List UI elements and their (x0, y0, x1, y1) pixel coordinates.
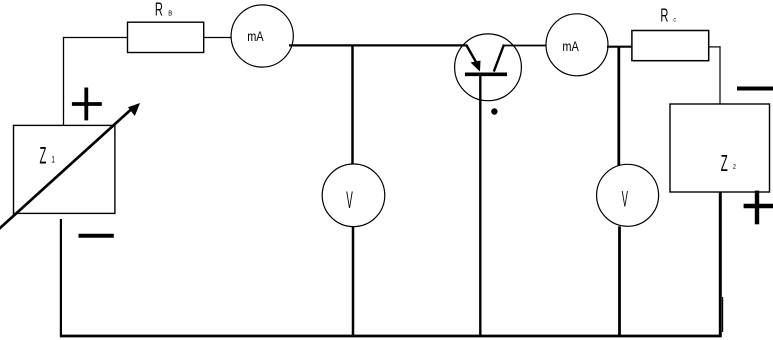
thin doubled wire segment near Z2 bottom wire (722, 297, 724, 332)
wire from Z1 top to RB (horizontal) (63, 37, 128, 39)
wire transistor to mA2 (504, 45, 546, 47)
voltmeter V2 (597, 164, 659, 226)
svg-text:mA: mA (247, 29, 264, 45)
minus polarity at Z2 (top right) (737, 87, 773, 91)
dot below transistor (491, 108, 497, 114)
svg-text:R: R (155, 0, 163, 20)
svg-text:V: V (346, 186, 353, 214)
svg-text:B: B (168, 10, 172, 18)
svg-text:c: c (673, 17, 676, 24)
wire junction down to V1 (351, 45, 354, 165)
svg-text:Z: Z (721, 151, 728, 176)
voltmeter V1 (322, 164, 385, 227)
svg-text:Z: Z (39, 143, 46, 170)
wire Z2 bottom to rail (719, 192, 722, 337)
wire Z1 bottom to rail (60, 219, 62, 337)
svg-text:V: V (622, 187, 629, 212)
variable-source arrow through Z1 (0, 110, 131, 233)
transistor Q1 circle (455, 34, 522, 101)
wire mA2 to RC (607, 46, 632, 48)
source Z1 box (14, 125, 115, 213)
wire V1 to bottom rail (352, 227, 355, 337)
transistor base bar (465, 73, 507, 77)
svg-text:2: 2 (733, 163, 736, 171)
wire RB to mA1 (204, 37, 232, 39)
wire mA1 to transistor base (289, 44, 466, 46)
plus polarity at Z2 (bottom right) (744, 204, 773, 208)
resistor R_C (632, 31, 709, 61)
transistor right leg (494, 45, 504, 72)
svg-text:mA: mA (562, 39, 579, 55)
ammeter mA1 (231, 5, 293, 67)
svg-text:1: 1 (51, 154, 54, 164)
bottom rail wire (60, 335, 722, 338)
collector wire down to rail (479, 76, 481, 336)
wire junction down to V2 (617, 47, 620, 166)
wire from Z1 top to RB (vertical) (63, 38, 65, 126)
svg-text:R: R (660, 6, 668, 27)
resistor R_B (128, 22, 204, 52)
wire V2 to bottom rail (618, 226, 621, 336)
transistor left leg (emitter with arrow) (466, 45, 476, 63)
ammeter mA2 (546, 14, 608, 76)
wire RC to Z2 (vertical) (719, 46, 721, 104)
wire RC to Z2 (horizontal) (709, 46, 721, 48)
plus polarity at Z1 (72, 102, 102, 106)
minus polarity at Z1 (79, 234, 114, 238)
load Z2 box (670, 104, 770, 192)
